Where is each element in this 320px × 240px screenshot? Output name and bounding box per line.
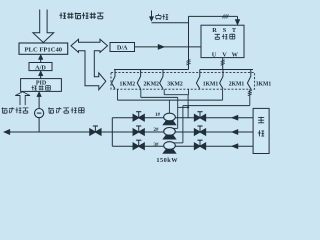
wire: power feed horizontal xyxy=(152,22,189,24)
valve at 138.7,117.7 xyxy=(133,115,139,121)
contactor separator at 223.0 xyxy=(220,70,223,89)
drop 2KM2 xyxy=(140,89,142,97)
valve at 138.7,146.2 xyxy=(133,143,139,149)
drop 1KM2 xyxy=(117,89,119,100)
contactor separator at 163.0 xyxy=(160,70,163,89)
contactor separator at 199.8 xyxy=(196,70,199,89)
contactor separator at 115.0 xyxy=(112,70,115,89)
svg-text:W: W xyxy=(232,51,239,58)
svg-text:2KM2: 2KM2 xyxy=(143,80,159,87)
drop 3KM1 xyxy=(249,89,251,105)
drop 3KM2 xyxy=(163,89,165,95)
contactor separator at 250.8 xyxy=(247,70,250,89)
PID box xyxy=(21,79,62,92)
wire: pipe tap to comparator xyxy=(38,118,40,132)
label dianyuan xyxy=(156,14,161,20)
wire: PID to A/D arrow xyxy=(40,74,42,79)
pump2 feed xyxy=(177,97,179,128)
3-phase slash on mains drop xyxy=(187,60,191,62)
aux jog xyxy=(178,106,188,108)
flow arrow row1 xyxy=(232,115,239,120)
junction dot xyxy=(187,106,189,108)
wire: UVW drop xyxy=(222,58,224,70)
contactor dashed box xyxy=(111,73,255,90)
PLC box xyxy=(19,43,68,54)
row 1 pipe xyxy=(112,117,253,119)
pump at 169.5,132.0 xyxy=(164,127,176,135)
comparator circle xyxy=(35,109,44,118)
svg-text:PLC FP1C40: PLC FP1C40 xyxy=(25,46,63,53)
svg-text:3#: 3# xyxy=(154,143,160,148)
row 3 pipe xyxy=(112,145,253,147)
svg-text:U: U xyxy=(212,51,217,58)
power source arrow xyxy=(151,11,153,18)
svg-text:3KM2: 3KM2 xyxy=(167,80,183,87)
solid feed bus right group xyxy=(200,69,253,71)
contactor separator at 140.6 xyxy=(137,70,140,89)
hollow arrow: operator signal down into PLC xyxy=(33,10,54,43)
drop 2KM1 xyxy=(222,89,224,100)
wire: comparator to PID arrow xyxy=(38,95,40,109)
valve at 138.7,132.0 xyxy=(133,129,139,135)
wire: D/A to inverter xyxy=(135,46,202,48)
svg-text:3KM1: 3KM1 xyxy=(256,80,272,87)
A/D box xyxy=(29,63,52,71)
valve at 200.0,146.2 xyxy=(194,143,200,149)
3-phase slash on power horizontal xyxy=(223,14,225,18)
svg-text:1KM1: 1KM1 xyxy=(203,80,219,87)
bus L1 xyxy=(164,94,188,96)
pump at 169.5,146.2 xyxy=(164,142,176,150)
label yali geiding xyxy=(2,107,8,113)
label caozuo kongzhi xinhao xyxy=(59,12,66,18)
solid feed bus left group xyxy=(114,69,189,71)
valve at 200.0,132.0 xyxy=(194,129,200,135)
main output pipe xyxy=(4,131,253,133)
bus L2 xyxy=(141,96,178,98)
svg-text:2KM1: 2KM1 xyxy=(229,80,245,87)
bus L3 xyxy=(118,99,223,101)
svg-text:D/A: D/A xyxy=(117,45,128,52)
water source box xyxy=(253,108,269,153)
flow arrow row3 xyxy=(232,144,239,149)
bus L4 xyxy=(183,105,250,107)
hollow double arrow PLC<->D/A with branch to contactors xyxy=(71,39,108,89)
label yali biansongqi xyxy=(48,107,54,113)
svg-text:S: S xyxy=(223,27,227,34)
D/A box xyxy=(110,43,135,52)
svg-text:2#: 2# xyxy=(154,128,160,133)
svg-text:V: V xyxy=(222,51,227,58)
valve at 95.4,132.0 xyxy=(90,129,96,135)
flow arrow row2 xyxy=(232,129,239,134)
svg-text:R: R xyxy=(212,27,217,34)
svg-text:A/D: A/D xyxy=(35,64,46,71)
svg-text:1KM2: 1KM2 xyxy=(120,80,136,87)
drop mains lower xyxy=(188,89,190,95)
inverter box xyxy=(201,25,244,57)
svg-text:150kW: 150kW xyxy=(156,157,178,164)
aux feed xyxy=(187,95,189,118)
svg-text:1#: 1# xyxy=(155,113,161,118)
pump at 169.5,117.7 xyxy=(164,113,176,121)
left manifold xyxy=(111,118,113,147)
valve at 200.0,117.7 xyxy=(194,115,200,121)
arrow into inverter top xyxy=(237,16,239,20)
wire: A/D to PLC arrow xyxy=(40,58,42,63)
pump1 feed xyxy=(168,100,170,114)
hollow arrow: setpoint up into PID xyxy=(15,92,30,105)
wire: mains drop to contactor box xyxy=(188,16,190,69)
svg-text:PID: PID xyxy=(36,80,47,86)
pump3 feed xyxy=(182,106,184,143)
